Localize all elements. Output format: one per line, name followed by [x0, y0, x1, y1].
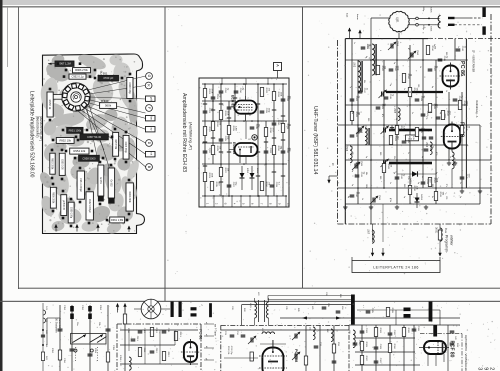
capacitor C112	[150, 350, 155, 352]
wire vertical	[212, 84, 214, 164]
capacitor C923	[211, 96, 216, 98]
svg-text:5n: 5n	[431, 196, 433, 198]
resistor R928	[227, 126, 230, 135]
capacitor C113	[131, 338, 136, 340]
svg-text:1n: 1n	[459, 182, 461, 184]
test point circle	[252, 135, 257, 140]
capacitor C109 horizontal plates	[191, 307, 197, 310]
resistor R924	[211, 122, 214, 131]
resistor R507	[428, 178, 431, 187]
diode E950	[241, 166, 243, 190]
capacitor C307	[374, 360, 379, 362]
svg-text:C805: C805	[430, 7, 432, 13]
tube ECH83 hexode	[235, 101, 257, 114]
svg-text:C503: C503	[381, 104, 383, 110]
svg-text:2p: 2p	[351, 184, 353, 186]
svg-text:R509: R509	[387, 164, 389, 170]
capacitor C510	[456, 48, 461, 50]
frame top rule	[2, 6, 500, 7]
trimmer C34	[294, 354, 296, 359]
resistor R112	[162, 352, 165, 361]
wire vertical	[273, 84, 275, 196]
svg-text:47: 47	[407, 48, 409, 50]
svg-text:Amplitudensieb mit Röhre ECH 8: Amplitudensieb mit Röhre ECH 83	[181, 93, 187, 172]
capacitor C516	[384, 96, 389, 98]
tuner rail y105	[345, 104, 468, 106]
svg-text:L566: L566	[425, 142, 427, 148]
svg-text:C560: C560	[416, 50, 418, 56]
copper traces halftone	[43, 59, 73, 85]
capacitor C102 feedthrough	[88, 306, 92, 312]
capacitor C23	[230, 334, 235, 336]
ZF Ausgang exit	[329, 175, 338, 177]
resistor R111	[138, 348, 141, 357]
svg-text:C153: C153	[116, 305, 118, 311]
ground symbols tuner	[344, 205, 346, 207]
svg-text:2n: 2n	[375, 196, 377, 198]
capacitor C955	[59, 153, 65, 175]
if transformer L115 primary	[255, 302, 257, 318]
svg-text:am F-Tuner: am F-Tuner	[214, 324, 217, 336]
capacitor C106	[58, 328, 63, 330]
svg-text:PC 88: PC 88	[199, 329, 203, 340]
capacitor C520	[350, 134, 355, 136]
svg-text:L565: L565	[393, 108, 395, 114]
transformer top wires	[268, 295, 351, 297]
tube socket key slot	[52, 95, 63, 100]
svg-text:Gr 951: Gr 951	[99, 177, 102, 185]
coil L32	[331, 329, 333, 342]
svg-text:R110: R110	[155, 328, 157, 334]
svg-text:(Ausführung „A“): (Ausführung „A“)	[189, 122, 193, 151]
svg-text:C565: C565	[360, 161, 362, 167]
wires around bars	[357, 309, 404, 311]
svg-text:R518: R518	[444, 228, 446, 234]
wire to output caps	[455, 17, 471, 19]
svg-text:7p: 7p	[349, 86, 351, 88]
resistor R103	[106, 352, 109, 362]
capacitor C931	[281, 98, 286, 100]
leftmost column parts	[41, 334, 45, 336]
svg-text:R921: R921	[208, 89, 210, 95]
svg-text:1n: 1n	[407, 152, 409, 154]
resistor R31	[332, 344, 335, 353]
tuner wire vertical	[422, 39, 424, 188]
svg-text:L562: L562	[353, 62, 355, 68]
svg-text:3p: 3p	[351, 112, 353, 114]
svg-text:33k: 33k	[393, 156, 395, 159]
capacitor C513	[421, 181, 426, 183]
coil L571	[452, 152, 454, 169]
resistor R506	[428, 104, 431, 113]
copper speckle	[43, 56, 135, 231]
svg-text:rot: rot	[150, 153, 153, 156]
svg-text:C155: C155	[112, 345, 114, 351]
ground arrow 2	[97, 225, 99, 232]
svg-text:3: 3	[477, 367, 483, 370]
scan top edge band	[0, 0, 500, 5]
svg-text:R925: R925	[216, 146, 218, 152]
svg-text:C151: C151	[63, 305, 65, 311]
more right side parts	[450, 330, 455, 332]
tube PCF80	[424, 341, 446, 354]
svg-text:R113: R113	[179, 332, 181, 338]
column divider 2	[302, 7, 303, 288]
svg-text:1p: 1p	[395, 118, 397, 120]
connector box A	[274, 63, 282, 71]
svg-text:C152: C152	[81, 305, 83, 311]
svg-text:wähler: wähler	[450, 235, 454, 246]
capacitor C24	[241, 334, 246, 336]
coil L563	[365, 128, 367, 145]
svg-text:R301: R301	[379, 328, 381, 334]
svg-text:C952 0,1µ: C952 0,1µ	[71, 75, 84, 79]
svg-text:R307: R307	[365, 356, 367, 362]
svg-text:C931: C931	[286, 96, 288, 102]
tuner wire vertical	[461, 92, 463, 188]
terminal B	[146, 164, 153, 171]
svg-text:C961 1000µF: C961 1000µF	[79, 178, 81, 193]
ground arrow 4	[55, 225, 57, 232]
svg-text:C935: C935	[255, 124, 257, 130]
capacitor C304	[353, 342, 358, 344]
bracket stubs	[351, 257, 353, 261]
ground arrow 1	[76, 225, 78, 232]
tuner compartment left wall	[344, 39, 346, 224]
svg-text:L567: L567	[367, 229, 369, 235]
svg-text:5p: 5p	[435, 172, 437, 174]
svg-text:2p: 2p	[389, 84, 391, 86]
extra junction dots mid	[212, 100, 214, 102]
svg-text:L564: L564	[345, 146, 347, 152]
page left black edge	[0, 0, 3, 371]
svg-text:R505: R505	[420, 128, 422, 134]
resonator bar 3	[389, 162, 432, 165]
column divider 1	[165, 7, 166, 301]
test point arrow 1	[372, 224, 374, 242]
svg-text:R515: R515	[465, 126, 467, 132]
svg-text:L551: L551	[396, 17, 399, 23]
wire bottom rail	[202, 195, 287, 197]
svg-text:R21 1,2k: R21 1,2k	[227, 346, 229, 355]
svg-text:R503: R503	[394, 136, 396, 142]
wire vertical	[204, 84, 206, 196]
coil L565	[398, 108, 400, 121]
svg-text:C301: C301	[365, 328, 367, 334]
label Handabstimmung arrow 1	[349, 28, 351, 38]
svg-text:R302: R302	[407, 328, 409, 334]
svg-text:R513: R513	[413, 88, 415, 94]
arrows to divider	[117, 304, 119, 313]
trimmer at bar 2	[383, 128, 385, 133]
leiterplatte bracket box	[352, 261, 440, 273]
tuner rail y60	[345, 59, 468, 61]
coil L110	[129, 357, 131, 370]
svg-text:180p: 180p	[422, 25, 424, 31]
svg-text:C507: C507	[433, 66, 435, 72]
resistor R102	[123, 314, 126, 324]
resistor R302	[402, 328, 405, 337]
tube PC92	[184, 342, 197, 362]
svg-text:C960 30p: C960 30p	[128, 82, 132, 94]
resistor network between bars	[406, 135, 419, 141]
svg-text:5p: 5p	[421, 156, 423, 158]
svg-text:R967 1,2M: R967 1,2M	[58, 62, 71, 66]
right wire vertical	[403, 325, 405, 371]
svg-text:C958 5000: C958 5000	[82, 156, 96, 160]
resistor R303	[360, 342, 363, 351]
svg-text:R962 220k: R962 220k	[128, 191, 130, 203]
tuner wire vertical	[448, 92, 450, 160]
resistor R962	[126, 183, 133, 211]
wire vertical	[220, 84, 222, 196]
svg-text:C934: C934	[239, 88, 241, 94]
tuner wire vertical	[357, 60, 359, 204]
diode Gr951	[98, 165, 104, 196]
svg-text:1n: 1n	[457, 46, 459, 48]
svg-text:C929: C929	[269, 148, 271, 154]
antenna feed wires	[371, 17, 390, 19]
svg-text:1n: 1n	[353, 42, 355, 44]
svg-text:R924: R924	[216, 122, 218, 128]
capacitor C521	[421, 113, 426, 115]
capacitor C504	[389, 68, 394, 70]
capacitor C103	[70, 348, 75, 350]
capacitor C514	[350, 194, 355, 196]
resistor R110	[150, 328, 153, 337]
svg-text:F: F	[147, 107, 151, 109]
svg-text:G: G	[147, 75, 151, 78]
svg-text:Dr551: Dr551	[435, 227, 438, 234]
frame left inner rule	[18, 7, 19, 289]
capacitor C31	[314, 345, 319, 347]
svg-text:C306: C306	[417, 326, 419, 332]
svg-text:1,2M: 1,2M	[234, 126, 236, 131]
capacitor C930	[272, 122, 277, 124]
svg-text:R508: R508	[463, 101, 465, 107]
svg-text:R507: R507	[433, 178, 435, 184]
capacitor C503	[376, 106, 381, 108]
capacitor C922	[203, 150, 208, 152]
svg-text:R514: R514	[431, 46, 433, 52]
capacitor C306	[412, 328, 417, 330]
wire R967 left	[48, 63, 55, 65]
terminal circle below S101	[74, 349, 77, 352]
resistor R511	[434, 192, 437, 201]
coil L23	[262, 332, 275, 334]
junction dots middle block	[204, 83, 206, 85]
terminal label schwarz	[146, 127, 156, 132]
svg-text:(Bestückseite): (Bestückseite)	[35, 116, 39, 137]
svg-text:3p: 3p	[417, 182, 419, 184]
resistor R932	[272, 146, 275, 155]
resistor R101	[58, 350, 61, 360]
tube socket pins	[85, 96, 90, 101]
svg-text:2n: 2n	[449, 156, 451, 158]
tuner compartment top wall dashed extension	[428, 38, 500, 40]
resistor R301	[374, 328, 377, 337]
capacitor C958	[79, 155, 100, 161]
svg-text:C962 1000µF: C962 1000µF	[88, 199, 90, 214]
small parts left of screen bar	[322, 306, 327, 308]
svg-text:C305: C305	[371, 308, 373, 314]
resistor R516	[395, 126, 398, 135]
capacitor C807 bar	[448, 17, 455, 19]
svg-text:500: 500	[445, 52, 447, 55]
terminal stubs top	[221, 78, 223, 84]
svg-text:R501: R501	[355, 112, 357, 118]
svg-text:C510: C510	[461, 46, 463, 52]
svg-text:1n: 1n	[403, 88, 405, 90]
capacitor C518	[438, 58, 443, 60]
right rails bottom band	[349, 324, 460, 326]
svg-text:500: 500	[379, 152, 381, 155]
svg-text:R504: R504	[407, 74, 409, 80]
right wire vertical	[413, 325, 415, 371]
capacitor C933	[270, 184, 275, 186]
capacitor C921	[203, 110, 208, 112]
resistor R961	[110, 217, 125, 223]
capacitor C515	[460, 176, 465, 178]
svg-text:R923: R923	[208, 173, 210, 179]
capacitor C924	[219, 90, 224, 92]
trimmer capacitor C559	[390, 44, 392, 49]
coil L33	[353, 330, 355, 348]
svg-text:1,5k: 1,5k	[407, 176, 409, 180]
drum wires	[134, 308, 141, 310]
svg-text:gelb: gelb	[150, 97, 152, 102]
capacitor C809 vertical bar top	[482, 7, 485, 17]
capacitor C928	[260, 110, 265, 112]
screen bar 2	[429, 302, 433, 322]
capacitor C517	[358, 90, 363, 92]
capacitor C108 feedthrough bars	[171, 302, 174, 318]
svg-text:C564: C564	[364, 125, 366, 131]
resistor R514	[426, 46, 429, 55]
resistor R923	[203, 173, 206, 182]
svg-text:1p: 1p	[351, 170, 353, 172]
screen bar above PCF80	[433, 325, 437, 337]
svg-text:C516: C516	[389, 94, 391, 100]
svg-text:56W: 56W	[456, 343, 458, 347]
solder pads	[57, 62, 60, 65]
resistor R934	[260, 182, 263, 191]
long bus wire 1	[242, 304, 353, 306]
resistor R933	[281, 124, 284, 133]
terminal G	[146, 73, 153, 80]
svg-text:180p: 180p	[422, 6, 424, 12]
svg-text:R931: R931	[277, 92, 279, 98]
capacitor C107	[106, 328, 111, 330]
resistor R307	[360, 356, 363, 365]
svg-text:C959 100p: C959 100p	[69, 207, 71, 219]
wire vertical	[257, 84, 259, 196]
capacitor C511	[355, 174, 360, 176]
svg-text:C154: C154	[63, 358, 65, 364]
svg-text:4700 pF: 4700 pF	[103, 76, 114, 80]
svg-text:120: 120	[445, 196, 447, 199]
svg-text:R934: R934	[265, 182, 267, 188]
right wire vertical	[389, 325, 391, 371]
test point arrow 2	[382, 204, 384, 242]
diode Gr552 horizontal	[397, 173, 436, 175]
trimmer capacitor C560	[410, 53, 412, 58]
row divider lower	[0, 301, 500, 302]
trimmer C22	[250, 338, 252, 343]
svg-text:R930: R930	[269, 128, 271, 134]
frame left faint rule	[6, 7, 9, 67]
svg-text:Programm-: Programm-	[445, 235, 449, 254]
resistor R513	[408, 88, 411, 97]
tube pin wires	[245, 84, 247, 96]
tuner compartment right wall	[465, 39, 467, 188]
pcc88 top wires	[272, 340, 274, 348]
resistor R21	[250, 352, 253, 361]
svg-text:Gr 952: Gr 952	[110, 179, 113, 187]
svg-text:R956 300k: R956 300k	[51, 192, 53, 204]
coupling coil arcs	[438, 15, 440, 21]
capacitor C507	[428, 68, 433, 70]
resistor R926	[219, 111, 222, 120]
trimmer capacitor C565	[354, 164, 356, 169]
svg-text:bunt: bunt	[346, 13, 349, 18]
capacitor C952	[69, 74, 86, 79]
resistor R32	[304, 356, 307, 365]
svg-text:R952 10k: R952 10k	[59, 138, 71, 142]
svg-text:100k: 100k	[365, 184, 367, 188]
svg-text:R303: R303	[365, 342, 367, 348]
svg-text:R927: R927	[224, 168, 226, 174]
resistor R951	[67, 127, 83, 133]
tuner rail y204	[345, 203, 480, 205]
svg-text:R935: R935	[215, 182, 217, 188]
tuner shield chain border bottom	[338, 223, 492, 225]
schematic frame	[199, 78, 289, 207]
svg-text:10k: 10k	[351, 152, 353, 155]
capacitor C519	[453, 98, 458, 100]
svg-text:1k: 1k	[445, 90, 447, 92]
svg-text:R928: R928	[232, 126, 234, 132]
svg-text:C930: C930	[277, 120, 279, 126]
svg-text:C806: C806	[430, 26, 432, 32]
terminal D	[146, 140, 153, 147]
resistor R503	[389, 136, 392, 145]
trimmer at bar 1	[381, 92, 383, 97]
tube PCC88	[262, 348, 283, 371]
resistor R927	[219, 168, 222, 177]
capacitor C963	[123, 135, 129, 159]
coil L31	[313, 327, 315, 340]
resistor R306	[386, 308, 389, 317]
tube PC86	[443, 66, 459, 87]
wire rail 2	[202, 100, 236, 102]
tuner rail y92 thick bus	[386, 91, 443, 93]
svg-text:R154: R154	[127, 328, 129, 334]
resistor R967	[55, 61, 74, 66]
test point arrow 3	[439, 241, 441, 243]
capacitor C927	[227, 184, 232, 186]
svg-text:560: 560	[403, 184, 405, 187]
svg-text:150: 150	[417, 84, 419, 87]
svg-text:R957 56k: R957 56k	[114, 139, 116, 150]
tuner wire vertical	[479, 125, 481, 204]
coil L564	[350, 146, 352, 163]
capacitor C302	[388, 332, 393, 334]
tuner wire vertical	[435, 60, 437, 204]
resistor R515	[460, 126, 463, 135]
svg-text:C955 0,05: C955 0,05	[60, 159, 62, 170]
svg-text:C563: C563	[378, 195, 380, 201]
